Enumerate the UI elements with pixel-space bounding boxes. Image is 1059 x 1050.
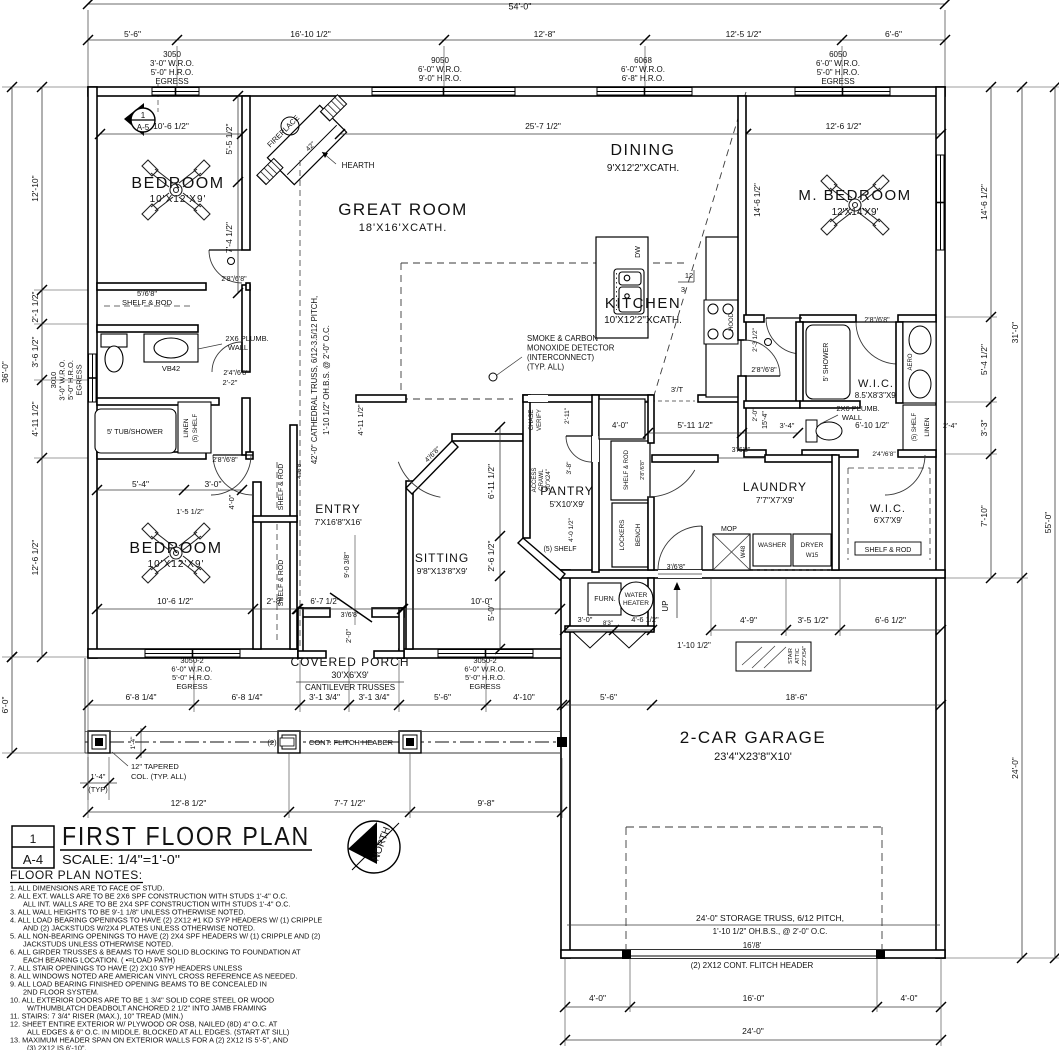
svg-text:12'-10": 12'-10" xyxy=(30,175,40,201)
window 3050-2 bedroom 2 xyxy=(145,649,240,658)
svg-text:3'-6 1/2": 3'-6 1/2" xyxy=(30,336,40,367)
svg-text:6'-0": 6'-0" xyxy=(0,697,10,714)
door bedroom1 xyxy=(209,250,242,283)
svg-text:5' SHOWER: 5' SHOWER xyxy=(823,343,830,382)
svg-text:24'-0": 24'-0" xyxy=(1010,757,1020,779)
svg-text:3'-4": 3'-4" xyxy=(780,421,795,430)
dim 1'-4 column rotated xyxy=(140,728,142,758)
dimension 31'-0" and 24'-0" right xyxy=(1021,87,1023,958)
ceiling dashed entry xyxy=(299,160,301,649)
door opening to garage xyxy=(658,570,702,578)
dimension overall 54'-0" top xyxy=(88,3,945,5)
dim 10'-6 1/2 bedroom1 xyxy=(100,133,242,135)
dim vertical sitting 6'-11 1/2 etc xyxy=(499,427,501,649)
svg-text:5'/6'8": 5'/6'8" xyxy=(137,289,157,298)
dim 25'-7 1/2 great room xyxy=(340,133,746,135)
dimension chain left second level xyxy=(41,87,43,657)
svg-text:2X6 PLUMB.: 2X6 PLUMB. xyxy=(225,334,268,343)
garage truss line xyxy=(567,924,940,926)
wall sitting west xyxy=(406,481,413,649)
svg-text:3'/6'8": 3'/6'8" xyxy=(732,447,751,454)
room label M. BEDROOM xyxy=(821,175,889,235)
master vanity double xyxy=(903,322,936,403)
wall mud east xyxy=(648,395,654,443)
svg-text:42'-0" CATHEDRAL TRUSS, 6/12-3: 42'-0" CATHEDRAL TRUSS, 6/12-3.5/12 PITC… xyxy=(310,296,319,464)
entry alcove door wall xyxy=(298,608,330,617)
svg-text:LAUNDRY: LAUNDRY xyxy=(743,480,807,494)
svg-text:24'-0" STORAGE TRUSS, 6/12 PIT: 24'-0" STORAGE TRUSS, 6/12 PITCH, xyxy=(696,913,844,923)
svg-text:(5) SHELF: (5) SHELF xyxy=(543,546,576,553)
svg-text:2X6 PLUMB.: 2X6 PLUMB. xyxy=(836,404,879,413)
door mud closet xyxy=(648,470,695,497)
svg-text:1'-10 1/2" OH.B.S., @ 2'-0" O.: 1'-10 1/2" OH.B.S., @ 2'-0" O.C. xyxy=(713,927,828,936)
wall laundry east x=836 xyxy=(832,455,839,570)
wall master bath south y=403 xyxy=(744,401,800,408)
wall shower west xyxy=(796,322,803,403)
svg-text:10'-6 1/2": 10'-6 1/2" xyxy=(153,121,189,131)
water heater xyxy=(619,582,653,616)
svg-text:5'-6": 5'-6" xyxy=(124,29,141,39)
exterior wall garage left / sitting east xyxy=(561,570,570,958)
attic stair box xyxy=(736,642,811,671)
mud cubby 4'-0 xyxy=(599,399,645,439)
exterior wall top xyxy=(88,87,945,96)
svg-text:DINING: DINING xyxy=(611,142,676,159)
furnace xyxy=(588,583,621,615)
svg-text:2'-4": 2'-4" xyxy=(943,423,957,430)
svg-text:36'-0": 36'-0" xyxy=(0,361,10,383)
door pantry xyxy=(592,436,599,462)
svg-text:CHASE: CHASE xyxy=(529,410,535,431)
svg-text:EGRESS: EGRESS xyxy=(155,77,188,86)
svg-text:HOOD: HOOD xyxy=(729,312,735,331)
wall bedroom1 south / closet north xyxy=(97,283,206,290)
exterior wall bottom left wing xyxy=(88,649,298,658)
svg-text:(5) SHELF: (5) SHELF xyxy=(193,413,199,442)
roof valley dashed diagonal xyxy=(652,92,746,402)
svg-text:7'-4 1/2": 7'-4 1/2" xyxy=(224,222,234,253)
chase opening xyxy=(528,395,548,402)
svg-text:9'X12'2"XCATH.: 9'X12'2"XCATH. xyxy=(607,163,679,174)
svg-text:2'4"/6'8": 2'4"/6'8" xyxy=(223,370,249,377)
ceiling break dashed great room xyxy=(401,262,686,264)
window 6050 master bedroom xyxy=(795,87,890,96)
svg-text:10'X12'X9': 10'X12'X9' xyxy=(148,559,205,570)
svg-text:31'-0": 31'-0" xyxy=(1010,322,1020,344)
svg-text:MONOXIDE DETECTOR: MONOXIDE DETECTOR xyxy=(527,344,615,353)
svg-text:LINEN: LINEN xyxy=(183,418,190,437)
svg-text:5'-4 1/2": 5'-4 1/2" xyxy=(979,344,989,375)
kitchen counter east with range xyxy=(706,237,741,397)
svg-text:7'X16'8"X16': 7'X16'8"X16' xyxy=(314,517,362,527)
svg-text:CANTILEVER TRUSSES: CANTILEVER TRUSSES xyxy=(305,683,395,692)
svg-text:6'-0" W.R.O.: 6'-0" W.R.O. xyxy=(621,65,665,74)
svg-text:DRYER: DRYER xyxy=(801,542,824,549)
window 3050-2 sitting xyxy=(438,649,533,658)
svg-text:6068: 6068 xyxy=(634,56,652,65)
svg-text:AERO: AERO xyxy=(908,353,914,370)
porch column 2 xyxy=(278,731,300,753)
svg-text:CRAWL: CRAWL xyxy=(539,469,545,491)
svg-text:LINEN: LINEN xyxy=(924,417,931,436)
svg-text:1'-10 1/2": 1'-10 1/2" xyxy=(677,641,711,650)
svg-text:12'-6 1/2": 12'-6 1/2" xyxy=(30,540,40,576)
svg-text:3'/6'8": 3'/6'8" xyxy=(341,612,360,619)
room label BEDROOM 2 xyxy=(142,523,210,583)
svg-text:2'8"/6'8": 2'8"/6'8" xyxy=(864,317,890,324)
wall great room south stub xyxy=(356,395,406,402)
svg-text:ACCESS: ACCESS xyxy=(532,468,538,493)
svg-text:3'-0": 3'-0" xyxy=(205,479,222,489)
window 9050 great room xyxy=(372,87,515,96)
washer xyxy=(753,534,791,566)
garage ceiling dashed rect xyxy=(626,826,882,828)
svg-text:SMOKE & CARBON: SMOKE & CARBON xyxy=(527,334,598,343)
shower 5' xyxy=(806,325,850,399)
svg-text:(TYP. ALL): (TYP. ALL) xyxy=(527,363,565,372)
wall bedroom1 east lower / bath east xyxy=(242,285,250,372)
svg-text:5'-0" H.R.O.: 5'-0" H.R.O. xyxy=(151,68,194,77)
dim garage interior 5'-6 18'-6 xyxy=(565,704,941,706)
svg-text:2'-8": 2'-8" xyxy=(267,596,284,606)
svg-text:HEATER: HEATER xyxy=(623,600,649,607)
svg-text:3'-8": 3'-8" xyxy=(566,461,573,475)
svg-text:STAIR: STAIR xyxy=(788,648,794,664)
svg-text:3'-1 3/4": 3'-1 3/4" xyxy=(358,692,389,702)
svg-text:10'X12'2"XCATH.: 10'X12'2"XCATH. xyxy=(604,315,682,326)
door master wic xyxy=(856,322,898,364)
svg-text:2'8"/6'8": 2'8"/6'8" xyxy=(640,460,646,480)
svg-text:4'-11 1/2": 4'-11 1/2" xyxy=(356,404,365,435)
svg-text:2'4"/6'8": 2'4"/6'8" xyxy=(872,451,896,458)
dim 10'-6 1/2 bottom bedroom2 xyxy=(97,608,297,610)
wall sitting north xyxy=(452,434,523,441)
vanity VB42 xyxy=(144,334,198,362)
svg-text:2'-11": 2'-11" xyxy=(564,407,571,424)
svg-text:3'-1 3/4": 3'-1 3/4" xyxy=(309,692,340,702)
svg-text:SHELF & ROD: SHELF & ROD xyxy=(624,449,630,490)
svg-text:KITCHEN: KITCHEN xyxy=(605,295,681,312)
svg-text:5'X10'X9': 5'X10'X9' xyxy=(549,499,584,509)
entry alcove porch stubs xyxy=(298,651,326,658)
svg-text:2'-2": 2'-2" xyxy=(223,378,238,387)
svg-text:(3) 2X12 IS 6'-10".: (3) 2X12 IS 6'-10". xyxy=(27,1044,87,1050)
svg-text:2'-3 1/2": 2'-3 1/2" xyxy=(752,327,759,351)
svg-text:4'-0": 4'-0" xyxy=(227,494,236,509)
svg-text:1: 1 xyxy=(141,111,146,120)
svg-text:(2): (2) xyxy=(267,738,277,747)
svg-text:5'-0" H.R.O.: 5'-0" H.R.O. xyxy=(817,68,860,77)
svg-text:1'-4": 1'-4" xyxy=(91,772,106,781)
dim garage door bottom xyxy=(565,1006,941,1008)
wall sitting northwest angled xyxy=(406,441,458,494)
toilet bath1 xyxy=(101,334,127,372)
kitchen island with sink xyxy=(596,237,648,338)
wall hall east xyxy=(242,398,250,455)
svg-text:EGRESS: EGRESS xyxy=(75,364,84,395)
wall laundry north y=457 xyxy=(652,455,718,462)
wall kitchen/master west xyxy=(738,96,746,340)
fireplace assembly xyxy=(253,91,360,198)
dim porch bottom chain xyxy=(88,704,562,706)
svg-text:1'-10 1/2" OH.B.S. @ 2'-0" O.C: 1'-10 1/2" OH.B.S. @ 2'-0" O.C. xyxy=(322,325,331,435)
porch column 1 xyxy=(88,731,110,753)
porch slab edge xyxy=(84,658,86,753)
extension front door xyxy=(354,535,356,625)
svg-text:9'-0" H.R.O.: 9'-0" H.R.O. xyxy=(419,74,462,83)
svg-text:(5) SHELF: (5) SHELF xyxy=(912,412,918,441)
garage door opening 16'/8' xyxy=(630,950,877,958)
svg-text:GREAT ROOM: GREAT ROOM xyxy=(338,200,468,219)
svg-text:9050: 9050 xyxy=(431,56,449,65)
svg-text:18'X16'XCATH.: 18'X16'XCATH. xyxy=(359,222,448,234)
door wic2 xyxy=(885,455,925,495)
tub 5' tub/shower xyxy=(95,409,176,453)
room label BEDROOM 1 xyxy=(142,160,210,220)
svg-text:12'-8": 12'-8" xyxy=(534,29,556,39)
svg-text:6'-8 1/4": 6'-8 1/4" xyxy=(125,692,156,702)
svg-text:HEARTH: HEARTH xyxy=(342,161,375,170)
svg-text:12'-5 1/2": 12'-5 1/2" xyxy=(726,29,762,39)
svg-text:W48: W48 xyxy=(741,545,747,558)
wall master bedroom south xyxy=(744,315,764,322)
wall bath south xyxy=(97,398,219,405)
svg-text:6'X7'X9': 6'X7'X9' xyxy=(874,516,903,525)
front door leaf xyxy=(330,593,372,622)
svg-text:SCALE: 1/4"=1'-0": SCALE: 1/4"=1'-0" xyxy=(62,853,180,867)
svg-text:54'-0": 54'-0" xyxy=(509,2,532,12)
svg-text:5'-0": 5'-0" xyxy=(486,604,496,621)
svg-text:W15: W15 xyxy=(806,553,819,559)
section marker 1/A-5 xyxy=(124,103,144,136)
svg-text:23'4"X23'8"X10': 23'4"X23'8"X10' xyxy=(714,751,792,763)
svg-text:SHELF & ROD: SHELF & ROD xyxy=(278,464,285,511)
svg-text:4'-9": 4'-9" xyxy=(740,615,757,625)
svg-text:7'-7 1/2": 7'-7 1/2" xyxy=(334,798,365,808)
svg-text:4'/6'8": 4'/6'8" xyxy=(296,461,303,479)
porch column 3 xyxy=(399,731,421,753)
svg-text:5'-6": 5'-6" xyxy=(600,692,617,702)
svg-text:4'-10": 4'-10" xyxy=(513,692,535,702)
svg-text:12" TAPERED: 12" TAPERED xyxy=(131,762,179,771)
svg-text:ATTIC: ATTIC xyxy=(795,648,801,664)
window master bedroom right xyxy=(936,155,945,250)
svg-text:5' TUB/SHOWER: 5' TUB/SHOWER xyxy=(107,427,163,436)
svg-text:VERIFY: VERIFY xyxy=(537,409,543,431)
wall tub room south / bedroom2 north xyxy=(97,452,206,459)
svg-text:10'X12'X9': 10'X12'X9' xyxy=(150,194,207,205)
exterior wall right xyxy=(936,87,945,958)
smoke detector note xyxy=(489,373,497,381)
svg-text:16'-0": 16'-0" xyxy=(743,993,765,1003)
svg-text:6'-11 1/2": 6'-11 1/2" xyxy=(486,464,496,499)
door bedroom2 pair xyxy=(213,455,253,495)
svg-text:4'-0 1/2": 4'-0 1/2" xyxy=(568,517,575,541)
svg-text:WATER: WATER xyxy=(625,592,648,599)
svg-text:UP: UP xyxy=(661,600,670,611)
lockers bench xyxy=(612,503,648,567)
svg-text:2'8"/6'8": 2'8"/6'8" xyxy=(221,276,247,283)
svg-text:3'/6'8": 3'/6'8" xyxy=(667,564,686,571)
dim 6'-7 1/2 entry xyxy=(298,608,402,610)
svg-text:4'-6 1/2": 4'-6 1/2" xyxy=(631,615,659,624)
svg-text:12: 12 xyxy=(685,271,693,280)
svg-text:SHELF & ROD: SHELF & ROD xyxy=(865,547,912,554)
wall kitchen-hall south y=399 xyxy=(523,395,652,402)
svg-text:10'-6 1/2": 10'-6 1/2" xyxy=(157,596,193,606)
svg-text:EGRESS: EGRESS xyxy=(176,682,207,691)
svg-text:BEDROOM: BEDROOM xyxy=(131,175,224,192)
svg-text:7'-10": 7'-10" xyxy=(979,505,989,527)
svg-text:WALL: WALL xyxy=(228,343,248,352)
svg-text:WASHER: WASHER xyxy=(758,542,787,549)
wall bedroom1 east upper xyxy=(242,96,250,250)
svg-text:2'-0": 2'-0" xyxy=(346,629,353,643)
svg-text:EGRESS: EGRESS xyxy=(469,682,500,691)
svg-text:10'-0": 10'-0" xyxy=(471,596,493,606)
svg-text:8.5'X8'3"X9': 8.5'X8'3"X9' xyxy=(855,391,898,400)
svg-text:8'3": 8'3" xyxy=(603,621,613,627)
svg-text:14'-6 1/2": 14'-6 1/2" xyxy=(753,183,762,217)
wall pantry east xyxy=(592,395,599,572)
title block A-4 xyxy=(12,826,54,868)
dim porch second chain xyxy=(88,811,562,813)
svg-text:30'X6'X9': 30'X6'X9' xyxy=(331,670,368,680)
wall closet1 south xyxy=(97,325,198,332)
svg-text:3'-5 1/2": 3'-5 1/2" xyxy=(797,615,828,625)
svg-text:6050: 6050 xyxy=(829,50,847,59)
door bath xyxy=(212,342,242,372)
svg-text:SITTING: SITTING xyxy=(415,551,469,565)
svg-text:3050: 3050 xyxy=(163,50,181,59)
svg-text:5'-6": 5'-6" xyxy=(434,692,451,702)
svg-text:FLOOR PLAN NOTES:: FLOOR PLAN NOTES: xyxy=(10,868,143,882)
svg-text:LOCKERS: LOCKERS xyxy=(619,519,626,551)
svg-text:ENTRY: ENTRY xyxy=(315,502,360,516)
svg-text:25'-7 1/2": 25'-7 1/2" xyxy=(525,121,561,131)
svg-text:4'-11 1/2": 4'-11 1/2" xyxy=(30,401,40,436)
svg-text:16'/8': 16'/8' xyxy=(743,941,762,950)
dim 24'-0 garage bottom xyxy=(565,1039,941,1041)
svg-text:5'-11 1/2": 5'-11 1/2" xyxy=(677,420,712,430)
svg-text:14'-6 1/2": 14'-6 1/2" xyxy=(979,184,989,220)
svg-text:3'/T: 3'/T xyxy=(671,385,684,394)
svg-text:2'8"/6'8": 2'8"/6'8" xyxy=(212,457,238,464)
svg-text:30"X24": 30"X24" xyxy=(546,469,552,491)
svg-text:9'-8": 9'-8" xyxy=(478,798,495,808)
svg-text:CONT. FLITCH HEADER: CONT. FLITCH HEADER xyxy=(309,738,394,747)
window 6068 dining xyxy=(597,87,692,96)
svg-text:12'X14'X9': 12'X14'X9' xyxy=(832,207,879,218)
svg-text:2'-1 1/2": 2'-1 1/2" xyxy=(30,291,40,322)
svg-text:6'-8" H.R.O.: 6'-8" H.R.O. xyxy=(622,74,665,83)
wall bedroom2 east xyxy=(253,482,261,649)
north arrow xyxy=(348,821,400,873)
dimension 6'-0" porch depth xyxy=(11,657,13,753)
svg-text:W.I.C.: W.I.C. xyxy=(870,503,906,515)
svg-text:5'-5 1/2": 5'-5 1/2" xyxy=(224,123,234,154)
svg-text:55'-0": 55'-0" xyxy=(1043,512,1053,534)
svg-text:(INTERCONNECT): (INTERCONNECT) xyxy=(527,353,595,362)
dim 12'-6 1/2 master bedroom xyxy=(746,133,941,135)
svg-text:1'-4": 1'-4" xyxy=(130,736,137,750)
linen closet xyxy=(178,402,211,453)
svg-text:1: 1 xyxy=(30,832,37,846)
dimension chain top second level xyxy=(88,39,945,41)
svg-text:DW: DW xyxy=(635,246,642,258)
door master bedroom xyxy=(766,318,802,354)
door sitting 4'/6'8 xyxy=(398,462,440,497)
dimension 55'-0" right outer xyxy=(1054,87,1056,958)
svg-text:SHELF & ROD: SHELF & ROD xyxy=(122,298,173,307)
svg-text:A-5: A-5 xyxy=(137,123,150,132)
svg-text:EGRESS: EGRESS xyxy=(821,77,854,86)
svg-text:2'-6 1/2": 2'-6 1/2" xyxy=(486,540,496,571)
wic2 rod dashed xyxy=(847,468,849,560)
dim hall 5'-11 1/2 and 3'-4 xyxy=(648,432,798,434)
svg-text:3: 3 xyxy=(681,285,685,294)
svg-text:VB42: VB42 xyxy=(162,364,180,373)
wall pantry west xyxy=(523,395,530,538)
wall hall south right part xyxy=(698,395,744,402)
svg-text:12'-6 1/2": 12'-6 1/2" xyxy=(826,121,862,131)
toilet master xyxy=(806,420,842,442)
svg-text:FIRST FLOOR PLAN: FIRST FLOOR PLAN xyxy=(62,821,310,851)
svg-text:7'7"X7'X9': 7'7"X7'X9' xyxy=(756,495,795,505)
porch header top line xyxy=(85,731,561,733)
svg-text:2-CAR GARAGE: 2-CAR GARAGE xyxy=(680,728,826,747)
svg-text:A-4: A-4 xyxy=(23,852,43,867)
svg-text:COL. (TYP. ALL): COL. (TYP. ALL) xyxy=(131,772,187,781)
svg-text:6'-6": 6'-6" xyxy=(885,29,902,39)
svg-text:6'-6 1/2": 6'-6 1/2" xyxy=(875,615,906,625)
svg-text:4'-0": 4'-0" xyxy=(901,993,918,1003)
svg-text:BEDROOM: BEDROOM xyxy=(129,540,222,557)
svg-text:COVERED PORCH: COVERED PORCH xyxy=(290,655,409,669)
svg-text:4'-0": 4'-0" xyxy=(612,421,628,430)
dimension 36'-0" left outer chain xyxy=(11,87,13,657)
dim garage top chain xyxy=(565,629,652,631)
svg-text:2'8"/6'8": 2'8"/6'8" xyxy=(751,367,777,374)
svg-text:6'-0" W.R.O.: 6'-0" W.R.O. xyxy=(816,59,860,68)
svg-text:6'-8 1/4": 6'-8 1/4" xyxy=(231,692,262,702)
svg-text:22"X54": 22"X54" xyxy=(802,646,808,666)
furnace closet doors xyxy=(573,632,646,648)
window 3010 bath xyxy=(88,354,97,402)
wall sitting southeast angled xyxy=(518,538,565,580)
svg-text:W.I.C.: W.I.C. xyxy=(858,378,894,390)
porch dim extension lines xyxy=(193,660,195,712)
exterior wall left xyxy=(88,87,97,658)
mop sink xyxy=(713,534,750,570)
furnace closet walls xyxy=(648,578,654,630)
wic2 shelf&rod boxed xyxy=(855,542,921,555)
svg-text:6'-10 1/2": 6'-10 1/2" xyxy=(855,421,889,430)
exterior wall bottom sitting xyxy=(399,649,565,658)
svg-text:6'-7 1/2": 6'-7 1/2" xyxy=(310,597,339,606)
svg-text:9'8"X13'8"X9': 9'8"X13'8"X9' xyxy=(417,566,468,576)
wall hall south y=452 xyxy=(744,450,766,457)
svg-text:3'-3": 3'-3" xyxy=(979,420,989,437)
dim 5'-5 1/2 / 7'-4 1/2 vertical xyxy=(237,96,239,293)
svg-text:2'-0": 2'-0" xyxy=(752,408,759,422)
svg-text:16'-10 1/2": 16'-10 1/2" xyxy=(290,29,331,39)
svg-text:(2) 2X12 CONT. FLITCH HEADER: (2) 2X12 CONT. FLITCH HEADER xyxy=(691,961,814,970)
wall laundry/mud south (garage north) xyxy=(561,570,945,578)
bedroom2 closets xyxy=(290,425,297,649)
window 3050 bedroom 1 xyxy=(152,87,199,96)
porch header dash-dot xyxy=(85,741,561,743)
